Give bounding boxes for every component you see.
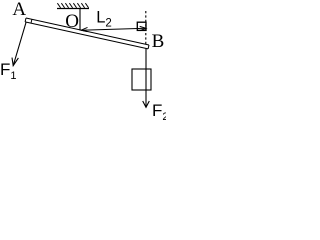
- svg-text:A: A: [12, 0, 26, 20]
- string and force arrow F2: [143, 49, 150, 108]
- dashed line of action of F2: [145, 11, 147, 44]
- ceiling hatching: [57, 3, 88, 8]
- lever bar AB: [25, 18, 149, 49]
- svg-text:F2: F2: [152, 101, 166, 123]
- ceiling line: [57, 8, 89, 10]
- hanging block: [132, 69, 151, 90]
- support rod from ceiling to pivot O: [79, 9, 81, 31]
- svg-text:B: B: [152, 31, 165, 52]
- right-angle marker: [137, 22, 146, 30]
- lever-arm dimension line L2: [81, 26, 146, 31]
- svg-text:L2: L2: [96, 9, 112, 30]
- svg-text:O: O: [65, 11, 79, 32]
- force arrow F1: [12, 23, 26, 66]
